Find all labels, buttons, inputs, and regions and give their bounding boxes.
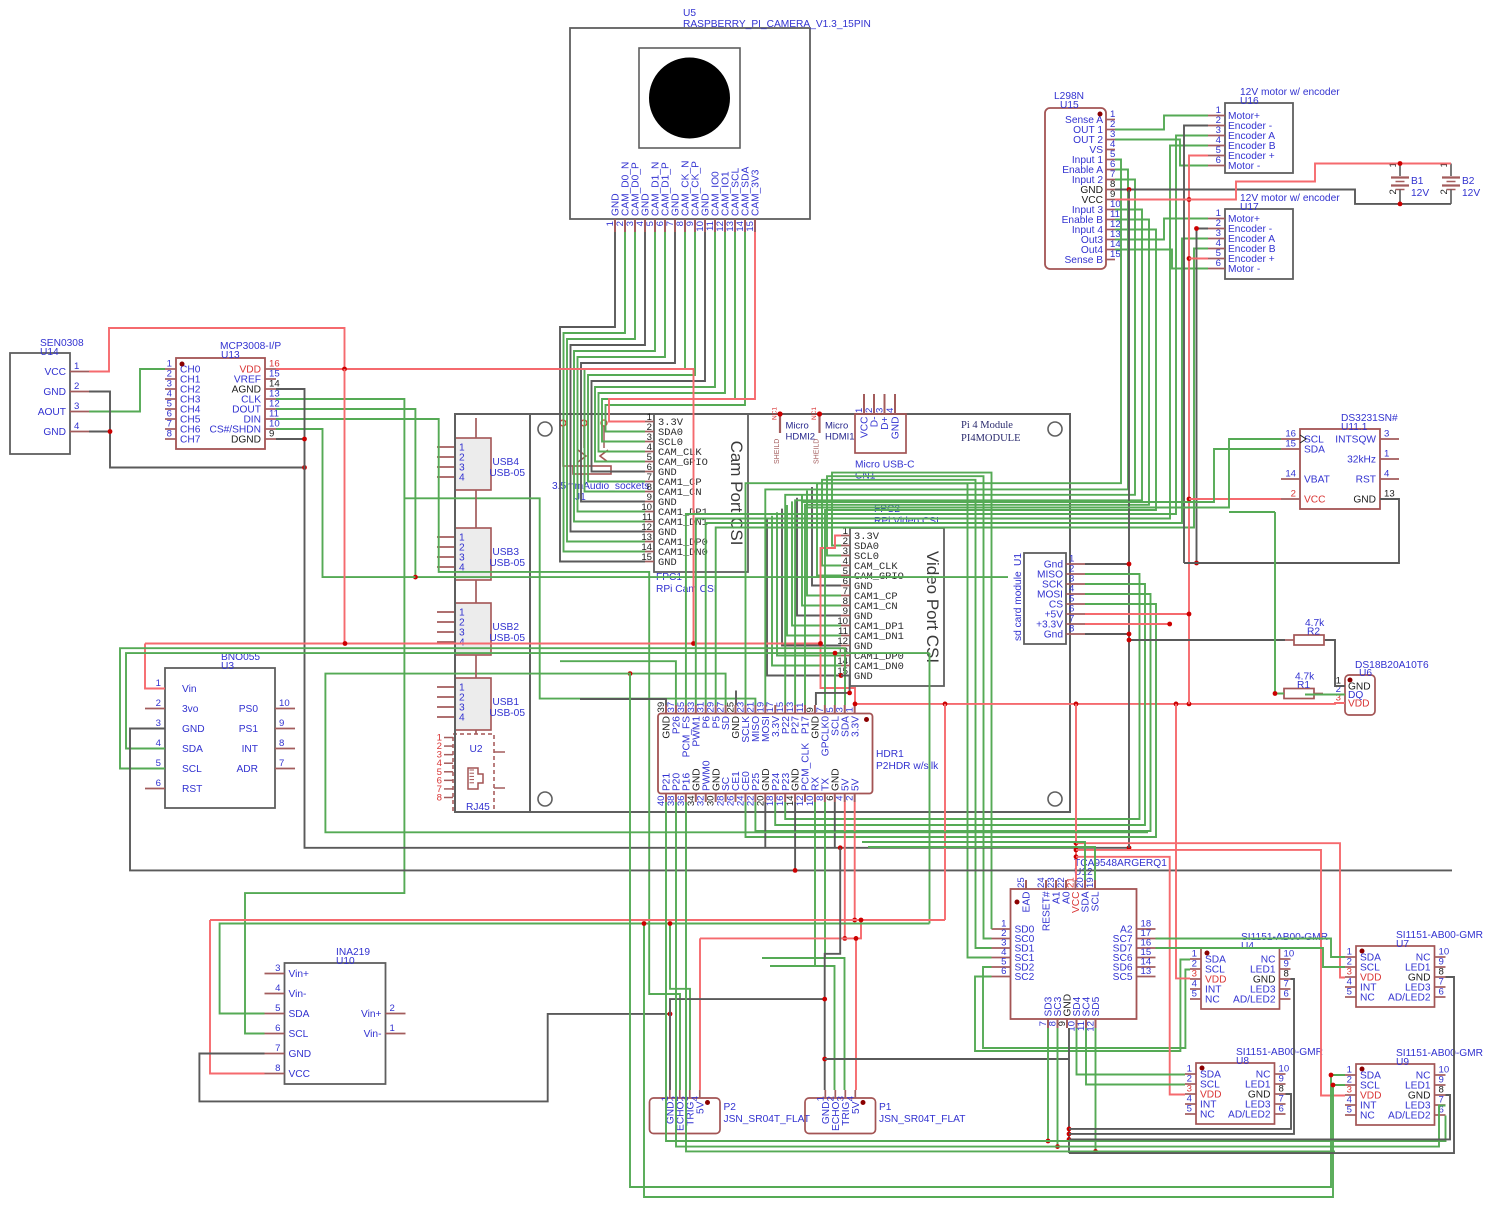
svg-text:4: 4 [459,473,465,484]
svg-text:1: 1 [156,678,161,689]
svg-text:USB-05: USB-05 [489,633,525,644]
svg-text:RST: RST [1356,475,1376,486]
svg-text:5: 5 [275,1003,280,1014]
svg-text:12V: 12V [1462,188,1480,199]
svg-text:2: 2 [1291,489,1296,500]
svg-text:VBAT: VBAT [1304,475,1330,486]
svg-text:2: 2 [1439,189,1450,194]
svg-text:Micro USB-C: Micro USB-C [855,460,914,471]
svg-text:USB1: USB1 [492,697,519,708]
svg-text:5: 5 [1347,987,1352,998]
svg-text:ADR: ADR [236,764,258,775]
svg-text:U6: U6 [1359,668,1372,679]
svg-text:U5: U5 [683,8,696,19]
svg-text:GND: GND [43,387,66,398]
svg-text:NC1: NC1 [772,407,779,420]
svg-text:3: 3 [156,718,161,729]
svg-text:5: 5 [1187,1104,1192,1115]
svg-text:PS1: PS1 [239,724,259,735]
svg-text:INTSQW: INTSQW [1335,435,1376,446]
svg-text:SCL: SCL [1091,891,1102,911]
svg-text:8: 8 [279,738,284,749]
svg-text:SC2: SC2 [1015,972,1035,983]
svg-text:AD/LED2: AD/LED2 [1388,1111,1431,1122]
svg-text:NC1: NC1 [811,407,818,420]
svg-text:15: 15 [1110,249,1121,260]
svg-text:USB4: USB4 [492,457,519,468]
svg-text:NC: NC [1360,993,1375,1004]
svg-text:5: 5 [156,758,161,769]
svg-text:VCC: VCC [44,367,66,378]
svg-text:D-: D- [870,417,881,428]
svg-text:GND: GND [182,724,205,735]
svg-text:8: 8 [167,429,172,440]
svg-text:RST: RST [182,784,202,795]
svg-text:Pi 4 Module: Pi 4 Module [961,420,1013,431]
svg-text:SHEILD: SHEILD [814,439,821,464]
svg-text:Vin-: Vin- [289,989,307,1000]
svg-text:6: 6 [1216,258,1221,269]
svg-text:U10: U10 [336,956,355,967]
svg-text:6: 6 [1279,1104,1284,1115]
svg-text:13: 13 [1384,489,1395,500]
svg-text:SHEILD: SHEILD [774,439,781,464]
svg-text:B1: B1 [1411,176,1424,187]
svg-text:R1: R1 [1297,680,1310,691]
svg-text:1: 1 [74,361,79,372]
svg-text:5V: 5V [695,1101,706,1114]
svg-text:4: 4 [885,407,896,413]
svg-text:HDMI1: HDMI1 [825,432,855,443]
svg-text:1: 1 [1384,449,1389,460]
svg-text:sd card module: sd card module [1013,571,1024,641]
svg-text:SI1151-AB00-GMR: SI1151-AB00-GMR [1241,932,1328,943]
svg-text:U11.1: U11.1 [1341,422,1368,433]
svg-text:8: 8 [437,792,442,803]
svg-text:SC5: SC5 [1113,972,1133,983]
svg-text:SCL: SCL [289,1029,309,1040]
svg-text:U14: U14 [40,347,59,358]
svg-text:5: 5 [1192,989,1197,1000]
svg-text:4: 4 [1384,469,1390,480]
svg-text:AD/LED2: AD/LED2 [1233,995,1276,1006]
svg-text:U8: U8 [1236,1056,1249,1067]
svg-text:Motor -: Motor - [1228,264,1260,275]
svg-text:5: 5 [1347,1105,1352,1116]
svg-text:B2: B2 [1462,176,1475,187]
svg-text:6: 6 [1439,987,1444,998]
svg-text:4: 4 [74,421,80,432]
svg-text:USB-05: USB-05 [489,558,525,569]
svg-text:USB-05: USB-05 [489,468,525,479]
svg-text:8: 8 [1069,624,1074,635]
svg-text:CH7: CH7 [180,435,201,446]
svg-text:14: 14 [1285,469,1296,480]
svg-text:USB-05: USB-05 [489,708,525,719]
svg-text:DGND: DGND [231,435,261,446]
svg-text:Micro: Micro [786,421,809,432]
svg-text:P1: P1 [879,1102,892,1113]
svg-text:P2: P2 [724,1102,737,1113]
svg-text:3vo: 3vo [182,704,199,715]
svg-text:1: 1 [845,707,856,712]
svg-text:2: 2 [74,381,79,392]
svg-text:2: 2 [864,408,875,413]
svg-text:CAM_3V3: CAM_3V3 [751,169,762,216]
svg-text:3.3V: 3.3V [850,716,861,737]
svg-text:Motor -: Motor - [1228,161,1260,172]
svg-text:4: 4 [845,1095,856,1101]
svg-text:2: 2 [156,698,161,709]
svg-text:Video Port CSI: Video Port CSI [923,551,942,663]
svg-text:USB2: USB2 [492,622,519,633]
svg-text:5V: 5V [851,1101,862,1114]
svg-text:Gnd: Gnd [1044,630,1064,641]
svg-text:USB3: USB3 [492,547,519,558]
svg-text:25: 25 [1016,877,1027,888]
svg-text:4: 4 [156,738,162,749]
svg-text:6: 6 [1284,989,1289,1000]
svg-text:GND: GND [289,1049,312,1060]
svg-text:13: 13 [1141,966,1152,977]
svg-text:15: 15 [745,221,756,232]
svg-text:6: 6 [275,1023,280,1034]
svg-text:U3: U3 [221,661,234,672]
svg-text:U16: U16 [1240,96,1259,107]
svg-text:SCL: SCL [182,764,202,775]
svg-text:U13: U13 [221,350,240,361]
svg-text:VDD: VDD [1348,699,1370,710]
svg-text:3: 3 [875,408,886,413]
svg-text:32kHz: 32kHz [1347,455,1376,466]
svg-text:U2: U2 [469,744,482,755]
svg-text:4: 4 [275,983,281,994]
svg-text:3: 3 [74,401,79,412]
svg-text:NC: NC [1200,1110,1215,1121]
svg-text:Sense B: Sense B [1064,255,1103,266]
svg-text:Vin+: Vin+ [289,969,310,980]
svg-text:Vin+: Vin+ [361,1009,382,1020]
svg-text:NC: NC [1360,1111,1375,1122]
svg-text:6: 6 [1001,966,1006,977]
svg-text:SI1151-AB00-GMR: SI1151-AB00-GMR [1236,1047,1323,1058]
svg-text:12V: 12V [1411,188,1429,199]
svg-text:U15: U15 [1060,100,1079,111]
svg-text:AD/LED2: AD/LED2 [1228,1110,1271,1121]
svg-text:4: 4 [459,713,465,724]
svg-text:Vin: Vin [182,684,197,695]
svg-text:Cam Port CSI: Cam Port CSI [727,441,746,546]
svg-text:2: 2 [1388,189,1399,194]
svg-text:9: 9 [279,718,284,729]
svg-text:5V: 5V [850,778,861,791]
svg-text:AD/LED2: AD/LED2 [1388,993,1431,1004]
svg-text:3: 3 [1384,429,1389,440]
svg-text:GND: GND [43,427,66,438]
svg-text:3: 3 [275,963,280,974]
svg-text:U1: U1 [1013,553,1024,566]
svg-text:SI1151-AB00-GMR: SI1151-AB00-GMR [1396,1048,1483,1059]
svg-text:4: 4 [690,1095,701,1101]
svg-text:10: 10 [279,698,290,709]
svg-text:EAD: EAD [1022,892,1033,913]
svg-text:SDA: SDA [182,744,203,755]
svg-text:8: 8 [275,1063,280,1074]
svg-text:6: 6 [1216,155,1221,166]
svg-text:7: 7 [279,758,284,769]
svg-text:2: 2 [390,1003,395,1014]
svg-text:SDA: SDA [289,1009,310,1020]
svg-text:D+: D+ [880,416,891,429]
svg-text:INT: INT [242,744,258,755]
svg-text:Vin-: Vin- [364,1029,382,1040]
svg-text:JSN_SR04T_FLAT: JSN_SR04T_FLAT [724,1114,810,1125]
svg-text:U9: U9 [1396,1057,1409,1068]
svg-text:2: 2 [845,796,856,801]
svg-text:6: 6 [156,778,161,789]
svg-text:SI1151-AB00-GMR: SI1151-AB00-GMR [1396,930,1483,941]
svg-text:JSN_SR04T_FLAT: JSN_SR04T_FLAT [879,1114,965,1125]
svg-text:NC: NC [1205,995,1220,1006]
svg-text:RASPBERRY_PI_CAMERA_V1.3_15PIN: RASPBERRY_PI_CAMERA_V1.3_15PIN [683,19,871,30]
svg-text:GND: GND [658,557,677,569]
svg-text:U4: U4 [1241,941,1254,952]
svg-text:1: 1 [390,1023,395,1034]
svg-text:AOUT: AOUT [38,407,66,418]
svg-text:SD5: SD5 [1091,996,1102,1016]
svg-text:HDR1: HDR1 [876,749,904,760]
svg-text:GND: GND [854,671,873,683]
svg-text:U17: U17 [1240,202,1259,213]
svg-text:15: 15 [1285,439,1296,450]
svg-text:7: 7 [275,1043,280,1054]
svg-text:U7: U7 [1396,939,1409,950]
svg-text:GND: GND [891,417,902,440]
svg-text:VCC: VCC [1304,495,1326,506]
svg-text:SDA: SDA [1304,445,1325,456]
svg-text:VCC: VCC [289,1069,311,1080]
svg-text:PI4MODULE: PI4MODULE [961,433,1021,444]
svg-text:HDMI2: HDMI2 [786,432,816,443]
svg-text:Micro: Micro [825,421,848,432]
svg-text:R2: R2 [1307,627,1320,638]
svg-text:9: 9 [269,429,274,440]
svg-text:GND: GND [1353,495,1376,506]
svg-text:PS0: PS0 [239,704,259,715]
